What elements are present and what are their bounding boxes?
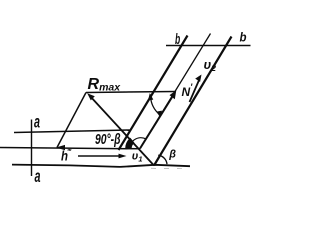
svg-text:a: a <box>34 112 40 132</box>
svg-text:β: β <box>168 148 176 160</box>
vertical axis line a-a <box>31 120 33 177</box>
double arrow arc at B <box>151 97 160 115</box>
vector R_max diagonal with arrowhead at apex <box>90 96 155 166</box>
vector v1 arrow <box>78 155 123 157</box>
vector v2 arrow inside chute <box>190 79 200 102</box>
vector N' arrow along middle line <box>140 94 174 149</box>
chute middle line <box>140 34 211 149</box>
ground line <box>12 165 190 167</box>
chute left wall <box>119 36 188 151</box>
svg-text:b: b <box>175 31 180 48</box>
ground dashes <box>151 167 156 169</box>
horizontal top side of parallelogram <box>86 92 176 93</box>
filled angle wedge at O (90deg-beta) <box>128 140 132 149</box>
horizontal line 2 with left arrow component <box>0 148 140 149</box>
parallelogram left side C-A <box>57 93 86 148</box>
horizontal line 1 (upper left) <box>14 130 130 133</box>
svg-text:90°-β: 90°-β <box>95 132 121 148</box>
svg-text:b: b <box>240 30 247 45</box>
left arrowhead on line2 <box>56 145 65 150</box>
beta arc at ground vertex <box>158 155 167 164</box>
line b-b horizontal <box>166 45 251 47</box>
chute right wall <box>154 37 232 166</box>
svg-text:a: a <box>35 166 41 186</box>
